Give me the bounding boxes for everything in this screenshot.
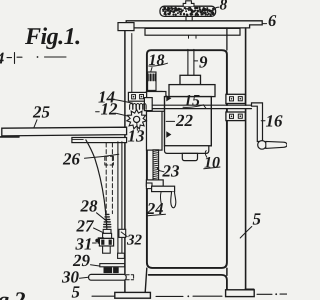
gear 12 [127,110,147,129]
guide line on left column [131,34,133,93]
threaded rod 23 [153,150,159,180]
chuck arm [152,186,175,191]
motor spindle neck [180,75,201,84]
label 10 [205,151,207,158]
label 6 [263,23,267,25]
step block [103,229,111,233]
feed rod to crank [222,106,252,108]
top beam 6 [126,21,262,28]
label 22 [166,120,174,122]
svg-text:Fig.2.: Fig.2. [0,288,30,300]
left column foot plate [115,292,151,298]
svg-text:Fig.1.: Fig.1. [24,24,81,50]
crank 16 body [252,103,263,142]
right column foot block [245,289,254,293]
beam left end block [118,23,134,31]
svg-text:8: 8 [220,0,228,14]
pawl triangles on box edge [166,95,171,138]
slide bar verticals [118,142,122,253]
slide nut 32 [119,229,126,237]
bolt 31 [98,238,103,243]
svg-text:12: 12 [101,100,119,119]
svg-text:26: 26 [62,150,81,169]
svg-text:25: 25 [32,103,51,122]
right base bar [226,290,255,297]
spring 28 [104,214,111,227]
right column lower plate [226,112,245,121]
hanging drop tool 24 [171,192,176,208]
screw shaft ticks below slot bar [189,35,197,38]
crank grip handle [266,141,287,148]
screw shaft upper segment [186,17,192,21]
svg-text:6: 6 [268,11,277,30]
table support bracket bar [72,138,127,143]
motor base plate [165,146,209,154]
label 24 [159,192,162,204]
pinion block [144,98,152,111]
svg-text:4: 4 [0,49,4,68]
svg-text:23: 23 [162,162,181,181]
hidden collar dashed [105,156,114,165]
hidden rod dashed lines [106,143,112,214]
motor box 15/22 [165,97,212,146]
chuck clamp [146,180,163,186]
label 23 [157,168,164,172]
nut on handwheel [183,1,194,6]
curved brace under table [86,140,107,238]
motor shoulder block [169,85,215,97]
bushing (pointed by 18) [148,72,156,90]
motor foot [182,153,197,160]
svg-text:9: 9 [199,53,208,72]
handwheel 8 body [160,6,216,16]
foot bar 30 [89,274,127,280]
svg-text:5: 5 [253,210,262,229]
frame window opening [147,50,227,268]
svg-text:22: 22 [175,111,194,130]
gear hub [134,116,140,122]
small bracket on slide bar [118,253,125,258]
leader 18 [150,68,152,74]
centerline of node 4 [7,53,22,64]
screw shaft lower segment [188,49,194,75]
table 25 [2,127,127,136]
svg-text:5: 5 [72,283,81,300]
bracket 29 [100,264,125,267]
clamp block [99,238,113,246]
slide slot bar under beam [145,28,240,35]
ground centerline [92,295,222,297]
stem [103,246,111,253]
left bracket plate with bolt holes [128,92,146,101]
svg-text:32: 32 [126,233,143,249]
carriage slab [147,92,163,151]
table thick lower edge [0,136,19,138]
label 9 [194,60,198,62]
svg-text:16: 16 [266,112,284,131]
svg-text:13: 13 [128,127,146,146]
leader 8 [214,7,219,10]
carriage top bracket [147,92,166,112]
label 12 [96,111,100,113]
base pedestal [145,268,147,292]
rack 14 teeth [130,104,147,110]
left column of frame 5 [124,31,126,293]
crank boss [258,141,267,150]
svg-text:27: 27 [76,217,96,236]
right column upper plate [226,94,245,103]
label 16 [261,120,265,122]
right column of frame 5 [245,28,247,290]
svg-text:28: 28 [80,197,99,216]
label 13 [136,123,139,130]
bushing knurl hatch [149,74,155,81]
handwheel stipple texture [163,7,214,15]
